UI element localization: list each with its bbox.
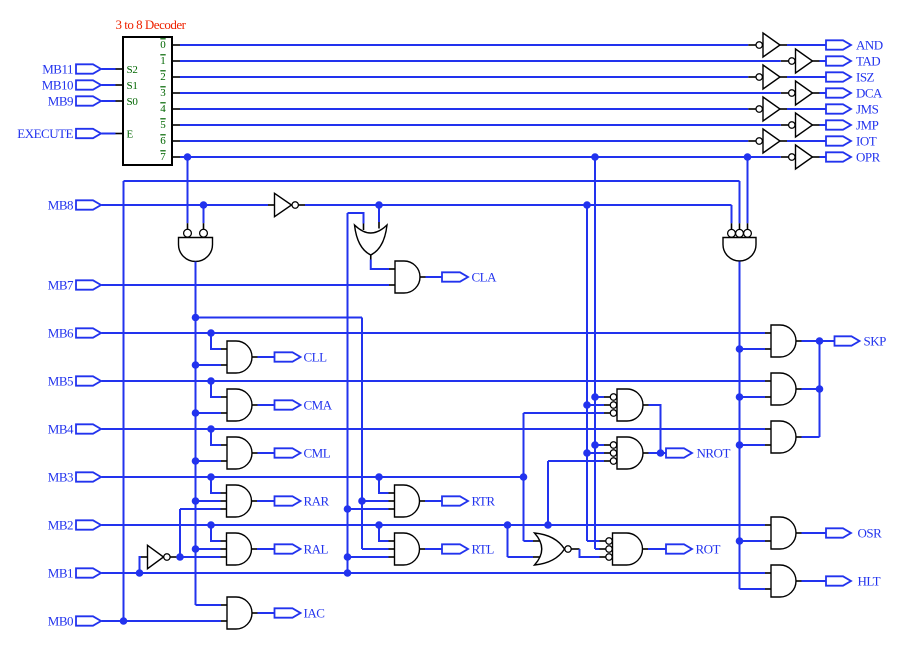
junction U2out y461 (192, 457, 200, 465)
nand U6B bubble mid (610, 450, 616, 456)
and gate HLT body (771, 565, 796, 597)
svg-text:E: E (127, 128, 134, 140)
output port CLL (275, 352, 301, 361)
svg-text:MB7: MB7 (48, 278, 74, 293)
and gate U9A output stub (796, 340, 802, 342)
and gate U9A input stub top (765, 332, 771, 334)
wire U8 out stub (643, 548, 649, 550)
junction MBrow x211 y525 (207, 521, 215, 529)
input port EXECUTE (76, 129, 101, 138)
wire U4 out to CLA port (426, 276, 443, 278)
output port RAL (275, 544, 301, 553)
wire MB0net to U5 bubble B (739, 181, 741, 229)
inverter U14 output stub (780, 108, 787, 110)
inverter U20 bubble (292, 202, 298, 208)
input port MB5 (76, 376, 101, 385)
svg-text:RAR: RAR (304, 494, 330, 509)
output port CMA (275, 400, 301, 409)
input port MB3 (76, 472, 101, 481)
output port label CLL (304, 350, 328, 365)
output port label RAL (304, 542, 329, 557)
junction MB8net y453 (583, 449, 591, 457)
and gate U9A body (771, 325, 796, 357)
wire OSR out to port (802, 532, 827, 534)
decoder pin /5 stub (172, 124, 180, 126)
inverter U15 JMP input stub (781, 124, 789, 126)
output port label NROT (697, 446, 731, 461)
wire MB7 row (102, 284, 390, 286)
svg-text:3 to 8 Decoder: 3 to 8 Decoder (116, 17, 187, 32)
decoder pin label /4 (160, 103, 166, 115)
inverter U20 output stub (299, 204, 305, 206)
inverter U16 IOT input stub (748, 140, 756, 142)
wire MB8 port to inverter (102, 204, 269, 206)
wire U9A out to SKP port (802, 340, 835, 342)
input port label MB7 (48, 278, 74, 293)
wire S0 input (102, 100, 116, 102)
svg-text:S0: S0 (127, 96, 139, 108)
wire MB0 net horizontal y181 (124, 180, 740, 182)
decoder pin /7 stub (172, 156, 180, 158)
wire MB2net vertical x507.5 (507, 525, 509, 557)
inverter U17 output stub (813, 156, 820, 158)
wire MB1net to RTR bottom input (348, 508, 395, 510)
svg-text:RAL: RAL (304, 542, 329, 557)
svg-text:3: 3 (160, 87, 166, 99)
inverter U15 triangle (796, 113, 813, 137)
decoder pin label /1 (160, 55, 166, 67)
input port MB2 (76, 520, 101, 529)
svg-text:5: 5 (160, 119, 166, 131)
junction U5out y541 (736, 537, 744, 545)
decoder title label (116, 17, 187, 32)
nand U6A bubble top (610, 394, 616, 400)
output port CML (275, 448, 301, 457)
and gate CML body (227, 437, 252, 469)
input port label MB9 (48, 94, 73, 109)
wire rotate-enable to RTL mid input (362, 548, 395, 550)
input port MB9 (76, 96, 101, 105)
inverter U13 triangle (796, 81, 813, 105)
output port SKP (835, 336, 860, 345)
svg-text:MB9: MB9 (48, 94, 73, 109)
svg-text:6: 6 (160, 135, 166, 147)
wire out7net to U6A top input (595, 396, 610, 398)
wire IAC out to port (258, 612, 275, 614)
output port JMS (826, 104, 851, 113)
junction MBrow x211 y333 (207, 329, 215, 337)
nand U6A bubble mid (610, 402, 616, 408)
svg-text:JMS: JMS (856, 102, 879, 117)
wire U2out to CLL bottom input (196, 364, 228, 366)
decoder pin /4 stub (172, 108, 180, 110)
junction MBrow x211 y429 (207, 425, 215, 433)
svg-text:IOT: IOT (856, 134, 877, 149)
decoder pin label /3 (160, 87, 166, 99)
nand U2 bubble A (184, 229, 192, 237)
decoder pin /0 stub (172, 44, 180, 46)
wire MB0 row (102, 620, 222, 622)
and gate U9C body (771, 421, 796, 453)
3-to-8 decoder U1 (123, 37, 172, 165)
and gate OSR output stub (796, 532, 802, 534)
and gate IAC output stub (252, 612, 258, 614)
and gate RAL body (227, 533, 252, 565)
junction U5out y445 (736, 441, 744, 449)
svg-text:MB1: MB1 (48, 566, 73, 581)
decoder pin label /0 (160, 39, 166, 51)
wire inverter JMP to port (820, 124, 827, 126)
and gate IAC body (227, 597, 252, 629)
inverter U11 output stub (813, 60, 820, 62)
wire net /3 row (180, 92, 781, 94)
wire inverter DCA to port (820, 92, 827, 94)
wire MB row to RAL top input (211, 525, 227, 541)
inverter U12 output stub (780, 76, 787, 78)
svg-text:MB6: MB6 (48, 326, 74, 341)
output port RTR (442, 496, 468, 505)
and IAC input stub bottom (221, 620, 227, 622)
wire MB2net vertical x548 (547, 461, 549, 525)
wire MB3net to U6A bottom input (524, 412, 611, 414)
input port MB10 (76, 80, 101, 89)
output port label RTL (472, 542, 495, 557)
inverter U13 bubble (789, 90, 795, 96)
wire HLT out to port (802, 580, 827, 582)
junction U2out y413 (192, 409, 200, 417)
input port MB7 (76, 280, 101, 289)
wire MB2 row (102, 524, 766, 526)
output port TAD (826, 56, 851, 65)
wire inverter OPR to port (820, 156, 827, 158)
junction MBrow x211 y381 (207, 377, 215, 385)
inverter U10 bubble (756, 42, 762, 48)
inverter U16 output stub (780, 140, 787, 142)
svg-text:MB3: MB3 (48, 470, 73, 485)
wire rotate-enable to RTR mid input (362, 500, 395, 502)
output port label IAC (304, 606, 325, 621)
wire RAL out to port (257, 548, 275, 550)
wire inverter net vertical x180 (179, 509, 181, 557)
wire CMA out to port (258, 404, 275, 406)
wire S1 input (102, 84, 116, 86)
input port label MB5 (48, 374, 73, 389)
output port label CLA (472, 270, 498, 285)
inverter U20 input stub (268, 204, 275, 206)
wire inverter ISZ to port (787, 76, 826, 78)
svg-text:1: 1 (160, 55, 166, 67)
input port label MB0 (48, 614, 73, 629)
inverter U14 bubble (756, 106, 762, 112)
output port IOT (826, 136, 851, 145)
inverter U15 bubble (789, 122, 795, 128)
wire MB2net to NOR bottom input (508, 556, 541, 558)
inverter U16 triangle (763, 129, 780, 153)
wire net /6 row (180, 140, 748, 142)
svg-text:MB2: MB2 (48, 518, 73, 533)
inverter U12 triangle (763, 65, 780, 89)
svg-text:CLL: CLL (304, 350, 328, 365)
output port label DCA (856, 86, 883, 101)
and gate U9B body (771, 373, 796, 405)
inverter U21 triangle (148, 545, 164, 568)
svg-text:ISZ: ISZ (856, 70, 875, 85)
wire U7 out to ROT bottom input (580, 549, 606, 557)
junction MB8 x203.5 (200, 201, 208, 209)
junction MBrow x379 y525 (375, 521, 383, 529)
junction MB1net y509 (344, 505, 352, 513)
wire CLL out to port (258, 356, 275, 358)
and gate RAL output stub (252, 548, 258, 550)
output port label CML (304, 446, 331, 461)
wire MB1net to OR left input (348, 213, 364, 230)
and gate RTR output stub (420, 500, 426, 502)
wire MB4 row (102, 428, 766, 430)
inverter U21 bubble (164, 554, 170, 560)
svg-text:MB11: MB11 (42, 62, 73, 77)
wire U2out to CML bottom input (196, 460, 228, 462)
inverter U11 TAD input stub (781, 60, 789, 62)
svg-text:2: 2 (160, 71, 166, 83)
wire net /7 row (180, 156, 781, 158)
svg-text:CLA: CLA (472, 270, 498, 285)
svg-text:0: 0 (160, 39, 166, 51)
input port label MB3 (48, 470, 73, 485)
decoder pin /6 stub (172, 140, 180, 142)
nand U8 bubble mid (606, 546, 612, 552)
and gate OSR body (771, 517, 796, 549)
junction MB8net y405 (583, 401, 591, 409)
decoder pin label S1 (127, 80, 138, 92)
wire MB3 row (102, 476, 524, 478)
wire ROT out to port (648, 548, 666, 550)
and U4 CLA input stub top (389, 268, 395, 270)
inverter U17 OPR input stub (781, 156, 789, 158)
wire MB row to CML top input (211, 429, 227, 445)
wire U2out to IAC top input (196, 604, 228, 606)
wire RTL out to port (425, 548, 442, 550)
svg-text:IAC: IAC (304, 606, 325, 621)
wire MB6 row (102, 332, 766, 334)
junction MBrow x379 y477 (375, 473, 383, 481)
and gate U9C output stub (796, 436, 802, 438)
svg-text:TAD: TAD (856, 54, 880, 69)
svg-text:S1: S1 (127, 80, 138, 92)
and gate CLL body (227, 341, 252, 373)
and gate U6A body (617, 389, 643, 421)
nand U8 bubble top (606, 538, 612, 544)
nand U6A bubble bottom (610, 410, 616, 416)
junction MB8 x587 (583, 201, 591, 209)
junction MB3 x523.5 (520, 473, 528, 481)
svg-text:JMP: JMP (856, 118, 879, 133)
wire out7net to ROT mid input (595, 548, 606, 550)
svg-text:MB5: MB5 (48, 374, 73, 389)
junction U2out y365 (192, 361, 200, 369)
output port NROT (666, 448, 692, 457)
svg-text:S2: S2 (127, 64, 138, 76)
output port DCA (826, 88, 851, 97)
wire MB8net to U6A mid input (587, 404, 610, 406)
junction MBrow x211 y477 (207, 473, 215, 481)
and gate U6B body (617, 437, 643, 469)
inverter U13 DCA input stub (781, 92, 789, 94)
wire out7net vertical x595 (594, 157, 596, 549)
junction U2 out y317.5 (192, 314, 200, 322)
junction U5out y397 (736, 393, 744, 401)
wire MB row to CMA top input (211, 381, 227, 397)
wire net /5 row (180, 124, 781, 126)
wire E input (102, 133, 116, 135)
nor U7 body (535, 533, 565, 565)
svg-text:MB10: MB10 (42, 78, 73, 93)
svg-text:DCA: DCA (856, 86, 883, 101)
decoder pin S1 stub (116, 84, 124, 86)
and gate HLT input stub top (765, 572, 771, 574)
inverter U12 bubble (756, 74, 762, 80)
wire U3 out to U4 (371, 260, 389, 270)
wire U7 out stub (571, 548, 579, 550)
output port label OSR (858, 526, 883, 541)
and gate U9C input stub top (765, 428, 771, 430)
wire CML out to port (258, 452, 275, 454)
inverter U17 bubble (789, 154, 795, 160)
output port ISZ (826, 72, 851, 81)
svg-text:RTL: RTL (472, 542, 495, 557)
output port label JMP (856, 118, 879, 133)
output port label RTR (472, 494, 496, 509)
inverter U14 triangle (763, 97, 780, 121)
nand U5 bubble B (736, 229, 744, 237)
input port MB1 (76, 568, 101, 577)
input port MB11 (76, 64, 101, 73)
junction out7net y445 (591, 441, 599, 449)
output port IAC (275, 608, 301, 617)
junction U2out y549 (192, 545, 200, 553)
wire U2out to RAR mid input (196, 500, 227, 502)
wire MB1net vertical x347.5 (347, 213, 349, 573)
svg-text:ROT: ROT (696, 542, 721, 557)
wire MB row to RTR top input (379, 477, 395, 493)
decoder pin label E (127, 128, 134, 140)
wire U6A out (643, 405, 661, 453)
wire out7 to U2 bubble (187, 157, 189, 229)
wire MB1 row (102, 572, 766, 574)
wire NROT out to port (649, 452, 667, 454)
inverter U14 JMS input stub (748, 108, 756, 110)
junction MB0 row x123.5 (120, 617, 128, 625)
junction row7 x595 (591, 153, 599, 161)
wire MB0 net vertical x123.5 (123, 181, 125, 621)
and U4 CLA input stub bottom (389, 284, 395, 286)
svg-text:OPR: OPR (856, 150, 881, 165)
output port HLT (826, 576, 851, 585)
wire MB1 to U21 input (140, 557, 148, 573)
wire MB1net to RTL bottom input (348, 556, 395, 558)
svg-text:SKP: SKP (864, 334, 887, 349)
inverter U10 triangle (763, 33, 780, 57)
junction MB1 x139.5 (136, 569, 144, 577)
inverter U12 ISZ input stub (748, 76, 756, 78)
svg-text:MB4: MB4 (48, 422, 74, 437)
decoder pin E stub (116, 133, 124, 135)
svg-text:HLT: HLT (858, 574, 881, 589)
input port label MB8 (48, 198, 73, 213)
junction U5out y349 (736, 345, 744, 353)
output port label ISZ (856, 70, 875, 85)
inverter U15 output stub (813, 124, 820, 126)
and gate RAR body (227, 485, 252, 517)
and gate HLT output stub (796, 580, 802, 582)
svg-text:OSR: OSR (858, 526, 883, 541)
wire U5 output south x739.5 (739, 262, 741, 590)
wire U2 output south (195, 262, 197, 605)
decoder pin label S0 (127, 96, 139, 108)
wire U3 output stub (370, 255, 372, 260)
wire U5out to U9A bottom input (740, 348, 772, 350)
input port MB6 (76, 328, 101, 337)
wire U5out to U9C bottom input (740, 444, 772, 446)
inverter U16 bubble (756, 138, 762, 144)
and gate U9B output stub (796, 388, 802, 390)
wire S2 input (102, 68, 116, 70)
input port label MB6 (48, 326, 74, 341)
wire rotate-enable y317.5 (196, 317, 363, 319)
nand U6B bubble top (610, 442, 616, 448)
output port label TAD (856, 54, 880, 69)
svg-text:7: 7 (160, 151, 166, 163)
wire U9C out to join (802, 436, 820, 438)
wire out7net to U6B top input (595, 444, 610, 446)
svg-text:EXECUTE: EXECUTE (17, 126, 73, 141)
wire MB3net vertical x523.5 (523, 413, 525, 541)
nand U5 bubble A (728, 229, 736, 237)
wire MB5 row (102, 380, 766, 382)
nand U5 body (723, 238, 756, 262)
wire MB8net vertical x587 (586, 205, 588, 541)
wire inverter IOT to port (787, 140, 826, 142)
inverter U13 output stub (813, 92, 820, 94)
output port label ROT (696, 542, 721, 557)
svg-text:4: 4 (160, 103, 166, 115)
or U3 body (355, 225, 388, 255)
and gate RAR output stub (252, 500, 258, 502)
wire net /0 row (180, 44, 748, 46)
wire rotate-enable x362 (361, 318, 363, 550)
inverter U21 output stub (170, 556, 176, 558)
decoder pin S2 stub (116, 68, 124, 70)
wire out7 to U5 bubble C (747, 157, 749, 229)
output port label SKP (864, 334, 887, 349)
and gate CMA body (227, 389, 252, 421)
input port label MB10 (42, 78, 73, 93)
wire MB3net to NOR top input (524, 540, 541, 542)
svg-text:MB0: MB0 (48, 614, 73, 629)
output port RAR (275, 496, 301, 505)
wire RTR out to port (425, 500, 442, 502)
inverter U11 bubble (789, 58, 795, 64)
wire net /4 row (180, 108, 748, 110)
input port MB4 (76, 424, 101, 433)
output port label JMS (856, 102, 879, 117)
junction MB1net y557 (344, 553, 352, 561)
and gate CMA output stub (252, 404, 258, 406)
svg-text:AND: AND (856, 38, 883, 53)
inverter U10 AND input stub (748, 44, 756, 46)
nor U7 bubble (565, 546, 571, 552)
wire inverter net to RAR bottom input (180, 508, 227, 510)
wire inverter JMS to port (787, 108, 826, 110)
